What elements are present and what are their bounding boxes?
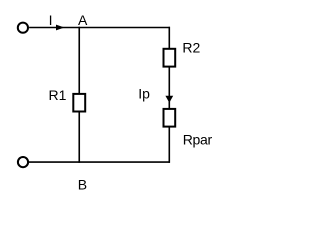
svg-text:A: A	[78, 12, 88, 28]
wire Rpar down to bottom corner	[168, 127, 170, 163]
svg-text:R2: R2	[182, 40, 200, 56]
wire top horizontal	[29, 27, 170, 29]
terminal top-left	[18, 23, 28, 33]
current arrow I	[56, 25, 64, 31]
svg-text:I: I	[49, 12, 53, 28]
wire R2 down to Rpar	[168, 67, 170, 109]
wire node A down to R1	[78, 27, 80, 94]
resistor R2	[164, 49, 176, 67]
svg-text:Rpar: Rpar	[183, 131, 213, 147]
resistor R1	[73, 94, 85, 112]
wire top right corner down to R2	[168, 27, 170, 49]
current arrow Ip	[165, 96, 173, 103]
wire R1 down to bottom	[78, 112, 80, 163]
terminal bottom-left	[18, 157, 28, 167]
resistor Rpar	[164, 109, 176, 127]
svg-text:R1: R1	[49, 87, 67, 103]
svg-text:B: B	[78, 177, 87, 193]
svg-text:Ip: Ip	[138, 85, 150, 101]
wire bottom horizontal	[29, 161, 170, 163]
